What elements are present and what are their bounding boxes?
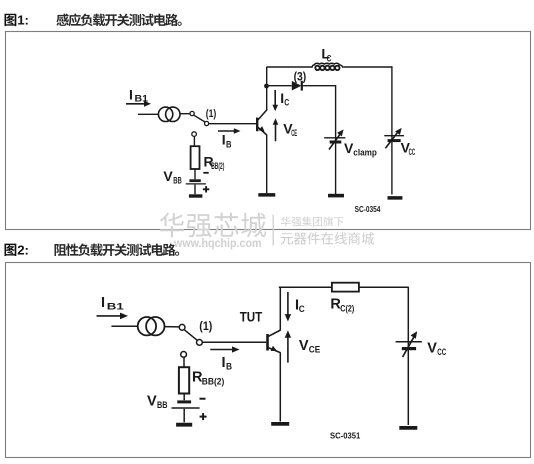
svg-text:V: V (147, 393, 157, 409)
svg-text:I: I (129, 87, 133, 103)
wire switch to base fig2 (202, 341, 266, 343)
svg-text:(3): (3) (294, 72, 307, 84)
svg-text:BB: BB (173, 176, 182, 186)
svg-text:B1: B1 (107, 302, 125, 313)
transistor Q2 emitter arrowhead (271, 346, 277, 351)
wire emitter down fig1 (266, 135, 268, 194)
current source CS2 fig2 (138, 317, 165, 335)
arrow IB fig2 (210, 346, 239, 352)
arrow IC fig1 (272, 90, 278, 111)
svg-text:B: B (226, 362, 232, 373)
figure 2 border box (6, 263, 531, 458)
arrow IB fig1 (218, 128, 241, 134)
battery VBB fig2 (172, 402, 200, 408)
wire top collector to inductor fig1 (267, 66, 313, 68)
inductor LC coil fig1 (312, 63, 344, 70)
ground VBB fig1 (189, 194, 203, 197)
transistor Q1 collector lead (258, 109, 267, 120)
transistor Q1 emitter arrowhead (259, 126, 265, 132)
svg-text:V: V (427, 341, 437, 357)
switch S1 throw contact fig1 (205, 121, 209, 125)
ground emitter fig2 (271, 422, 289, 426)
arrow VCE fig1 (273, 118, 279, 141)
svg-text:CC: CC (437, 347, 446, 358)
watermark slogan 华强集团旗下 (281, 217, 344, 227)
watermark big text 华强芯城 (160, 213, 266, 238)
wire switch to base fig1 (209, 123, 257, 125)
svg-text:1:: 1: (17, 13, 29, 28)
svg-text:I: I (222, 355, 226, 371)
title figure 1 text 感应负载开关测试电路。 (56, 13, 181, 26)
arrow IB1 fig1 (126, 101, 151, 107)
wire terminal to RBB fig1 (193, 137, 195, 147)
svg-text:B1: B1 (135, 93, 149, 103)
wire battery to ground fig1 (194, 185, 196, 195)
transistor Q1 base bar (256, 118, 258, 132)
ground Vclamp fig1 (328, 194, 344, 198)
arrow IC fig2 (285, 292, 291, 322)
watermark slogan 元器件在线商城 (281, 232, 374, 245)
svg-text:C: C (327, 54, 332, 64)
resistor RC(2) fig2 (332, 283, 359, 292)
switch S1 contact pole fig1 (190, 111, 194, 115)
svg-text:SC-0354: SC-0354 (355, 205, 381, 214)
wire right rail VCC fig1 (391, 66, 393, 194)
svg-text:TUT: TUT (240, 309, 263, 324)
switch S2 throw contact fig2 (197, 340, 203, 346)
wire inductor to right rail fig1 (344, 66, 392, 68)
wire collector to RC fig2 (279, 286, 332, 288)
svg-text:C: C (284, 97, 289, 107)
title figure 1 label 图1: (4, 13, 28, 28)
title figure 2 text 阻性负载开关测试电路。 (54, 243, 179, 256)
svg-text:CE: CE (291, 128, 297, 138)
wire emitter down fig2 (279, 353, 281, 422)
wire RBB to battery fig2 (183, 394, 185, 401)
svg-text:(1): (1) (199, 319, 212, 333)
wire clamp rail down fig1 (335, 85, 337, 195)
svg-text:SC-0351: SC-0351 (330, 431, 361, 441)
source Vclamp symbol fig1 (324, 129, 345, 149)
svg-text:C(2): C(2) (340, 304, 354, 315)
battery VBB fig1 (186, 181, 206, 184)
transistor Q2 collector lead (269, 330, 281, 336)
resistor RBB(2) fig2 (179, 367, 189, 393)
wire RC to right rail fig2 (359, 286, 408, 288)
diode D1 (3) fig1 (292, 81, 302, 91)
ground VCC fig2 (399, 426, 417, 430)
wire current source to switch fig1 (180, 113, 190, 115)
transistor Q2 emitter lead (269, 348, 281, 353)
svg-text:CC: CC (409, 147, 416, 157)
wire diode to clamp rail fig1 (303, 85, 336, 87)
arrow VCE fig2 (285, 330, 291, 362)
title figure 2 label 图2: (4, 243, 28, 258)
wire node to diode fig1 (267, 85, 292, 87)
ground VCC fig1 (388, 196, 403, 200)
svg-text:V: V (299, 338, 309, 354)
ground VBB fig2 (176, 423, 192, 427)
switch S1 lever fig1 (194, 115, 205, 122)
svg-text:CE: CE (309, 344, 321, 355)
svg-text:BB(2): BB(2) (211, 161, 224, 171)
svg-text:(1): (1) (206, 108, 217, 120)
wire collector up fig2 (279, 287, 281, 331)
ground emitter fig1 (258, 193, 275, 197)
svg-text:I: I (101, 295, 105, 311)
watermark divider (272, 215, 274, 246)
svg-text:B: B (226, 139, 232, 149)
svg-text:2:: 2: (17, 243, 29, 258)
resistor RBB(2) fig1 (191, 146, 200, 169)
switch S2 contact pole fig2 (179, 324, 185, 330)
wire RBB to battery fig1 (194, 169, 196, 179)
wire collector up fig1 (266, 67, 268, 110)
transistor Q1 emitter lead (258, 127, 267, 135)
switch lower throw terminal fig1 (192, 132, 197, 137)
current source CS1 fig1 (158, 107, 180, 121)
label battery minus fig1 (203, 172, 208, 174)
svg-text:V: V (163, 168, 173, 184)
wire battery to ground fig2 (183, 409, 185, 423)
label battery minus fig2 (200, 398, 206, 400)
label battery plus fig2 (200, 413, 207, 420)
switch lower throw terminal fig2 (181, 352, 187, 358)
svg-text:www.hqchip.com: www.hqchip.com (173, 236, 261, 250)
node collector junction fig1 (264, 84, 269, 89)
source VCC symbol fig2 (396, 331, 422, 357)
wire current source to switch fig2 (165, 326, 180, 328)
transistor Q2 TUT base bar (266, 334, 269, 351)
switch S2 lever fig2 (184, 330, 197, 340)
svg-text:C: C (299, 304, 305, 315)
arrow IB1 fig2 (97, 313, 129, 320)
wire right rail VCC fig2 (407, 287, 409, 425)
wire input to current source fig1 (138, 113, 159, 115)
label battery plus fig1 (203, 186, 209, 192)
wire input to current source fig2 (111, 325, 137, 327)
figure 1 border box (6, 32, 531, 230)
source VCC symbol fig1 (384, 128, 404, 148)
svg-text:BB(2): BB(2) (202, 377, 225, 388)
wire terminal to RBB fig2 (183, 357, 185, 367)
svg-text:clamp: clamp (353, 148, 377, 158)
svg-text:BB: BB (157, 400, 168, 411)
